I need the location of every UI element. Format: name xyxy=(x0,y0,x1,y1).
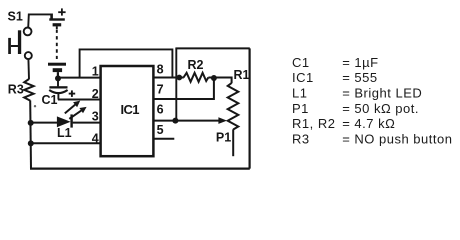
svg-text:2: 2 xyxy=(92,87,99,101)
svg-text:R3: R3 xyxy=(292,131,310,146)
svg-text:= 555: = 555 xyxy=(342,70,377,85)
svg-text:= NO push button: = NO push button xyxy=(342,131,452,146)
svg-text:R3: R3 xyxy=(8,82,24,96)
svg-text:R1, R2: R1, R2 xyxy=(292,116,335,131)
svg-text:= Bright LED: = Bright LED xyxy=(342,86,422,101)
svg-text:C1: C1 xyxy=(42,93,58,107)
svg-text:S1: S1 xyxy=(8,9,23,23)
svg-text:R1: R1 xyxy=(234,68,250,82)
svg-text:4: 4 xyxy=(92,132,99,146)
svg-text:P1: P1 xyxy=(216,131,231,145)
svg-text:1: 1 xyxy=(92,65,99,79)
svg-text:R2: R2 xyxy=(188,58,204,72)
svg-text:8: 8 xyxy=(157,62,164,76)
svg-text:6: 6 xyxy=(157,102,164,116)
svg-text:L1: L1 xyxy=(292,86,307,101)
svg-text:= 4.7 kΩ: = 4.7 kΩ xyxy=(342,116,395,131)
svg-text:L1: L1 xyxy=(57,126,72,140)
svg-text:5: 5 xyxy=(157,123,164,137)
svg-text:3: 3 xyxy=(92,110,99,124)
svg-text:IC1: IC1 xyxy=(292,70,314,85)
svg-text:7: 7 xyxy=(157,82,164,96)
svg-text:C1: C1 xyxy=(292,55,310,70)
svg-text:P1: P1 xyxy=(292,101,309,116)
svg-text:IC1: IC1 xyxy=(121,102,140,117)
svg-text:= 1µF: = 1µF xyxy=(342,55,378,70)
svg-text:= 50 kΩ pot.: = 50 kΩ pot. xyxy=(342,101,419,116)
